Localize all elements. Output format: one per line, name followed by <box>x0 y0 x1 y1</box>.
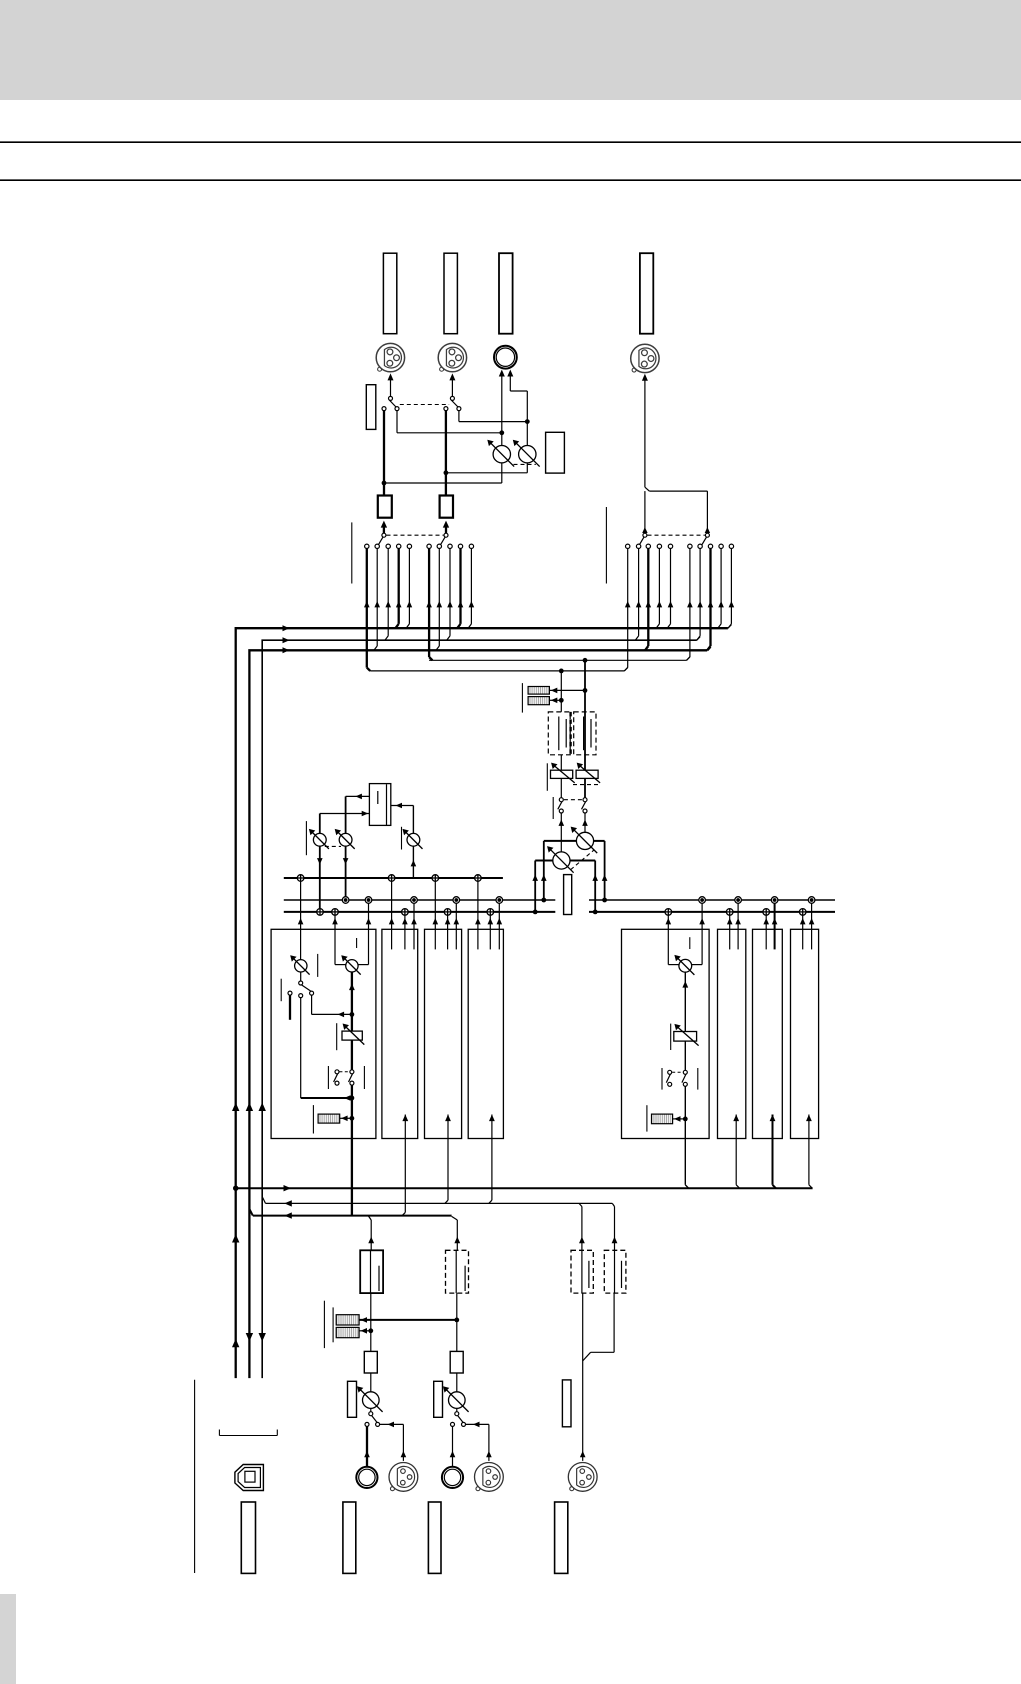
bottom-left gray strip <box>0 1594 16 1684</box>
switch S2 pole left pin <box>444 407 448 411</box>
wire branch down to SEL-D <box>706 491 708 533</box>
wire pan bracket ch5 <box>668 964 679 966</box>
line4 junction to monitor meters <box>583 658 588 663</box>
label monitor meters tick <box>521 683 523 713</box>
label USB bracket <box>219 1435 277 1437</box>
wire XLR4 feed with arrow <box>644 380 646 488</box>
wire monitor B left terminal <box>544 840 577 842</box>
sum node pan R ch5 <box>699 897 706 904</box>
switch SEL-A lever <box>378 537 383 545</box>
wire pot R down to tap <box>526 463 528 473</box>
row CUE send bus (thick) <box>284 877 503 879</box>
row master R bus <box>284 899 556 901</box>
connector XLR1 stereo out L <box>376 343 404 371</box>
sum node pan L ch2 <box>402 909 409 916</box>
label pan tick ch1 <box>356 938 358 948</box>
effect inner line 1 <box>377 791 379 804</box>
header rule upper <box>0 141 1021 143</box>
wire ch6 drop to trunk out <box>735 1139 737 1185</box>
wire monitor B fader to switch <box>584 778 586 797</box>
switch S2 top pin <box>450 396 454 400</box>
wire S2 pole to line amp A2 (thick) <box>445 411 447 496</box>
converter C inner line 1 <box>581 1250 583 1293</box>
fader channel 5 <box>674 1032 697 1042</box>
converter B inner line 2 <box>464 1266 466 1291</box>
wire XLR1 feed with arrow <box>390 380 392 397</box>
wire cue send riser ch1 <box>300 881 302 959</box>
wire ch4 drop to trunk A <box>491 1139 493 1201</box>
line5 right end bend <box>624 667 627 671</box>
pot phones level L <box>493 446 510 463</box>
gang dash mute ch1 <box>339 1071 349 1073</box>
spine AUX arrows <box>259 1103 266 1112</box>
gang dash monitor mutes <box>564 799 583 801</box>
sum node cue ch4 <box>475 875 482 882</box>
sum node cue ch2 <box>388 875 395 882</box>
wire ADC B riser with arrow <box>614 1207 616 1251</box>
switch SEL-B pole pin <box>444 533 448 537</box>
effect inner line 2 <box>386 784 388 825</box>
wire pan L riser ch1 <box>334 915 336 965</box>
switch mute ch1 left top pin <box>335 1070 339 1074</box>
sum node pan L ch3 <box>444 909 451 916</box>
label MONITOR (rotated label box) <box>564 875 572 915</box>
converter block D (dashed box) <box>604 1250 626 1293</box>
arrow bus AUX <box>283 637 290 643</box>
trim block input 1 <box>364 1351 377 1373</box>
pot pan ch5 <box>679 959 692 972</box>
label STEREO OUT L (rotated label box) <box>383 253 396 334</box>
switch input 2 mic pin <box>462 1422 466 1426</box>
wire meter feed ch5 <box>673 1118 686 1120</box>
wire monitor A left terminal <box>535 860 553 862</box>
wire mic 2 feed <box>466 1423 489 1425</box>
channel 7 strip box with risers <box>753 929 783 1138</box>
wire channel main upper ch5 <box>684 972 686 1032</box>
label input meters tick 1 <box>323 1301 325 1348</box>
pot effect return R <box>339 833 352 846</box>
converter D inner line 2 <box>621 1261 623 1288</box>
node meter tap ch1 <box>350 1116 355 1121</box>
bus CUE (thick) horizontal and spine <box>249 650 707 1378</box>
node pre tap on main ch1 <box>350 1012 355 1017</box>
wire DAC A riser with arrow <box>370 1220 372 1250</box>
wire right selector contact 9 stem <box>720 549 722 624</box>
wire monitor A drop from line5 <box>560 671 562 712</box>
switch mute ch1 right bottom pin <box>350 1081 354 1085</box>
wire XLR4 branch horizontal <box>649 490 707 492</box>
switch mute ch5 left top pin <box>668 1070 672 1074</box>
trunk return B ramp to spine <box>249 1209 252 1216</box>
label pan tick ch5 <box>689 937 691 949</box>
insert block monitor B (dashed box) <box>574 712 596 755</box>
label input meters tick 2 <box>332 1307 334 1342</box>
converter block B (dashed box) <box>446 1250 469 1293</box>
arrow bus CUE <box>283 647 290 653</box>
connector XLR input 3 <box>568 1463 597 1492</box>
trunk return B (thick) <box>253 1215 452 1217</box>
connector phone jack input 2 <box>442 1467 463 1488</box>
sum node pan L ch1 <box>332 909 339 916</box>
switch monitor B mute lever <box>582 802 586 810</box>
label cue pot tick ch1 <box>317 954 319 977</box>
gang dash phones pots <box>514 463 536 465</box>
node junction on amp A1 line <box>382 481 387 486</box>
wire meter L feed <box>359 1330 371 1332</box>
gang dash SEL-A/SEL-B <box>387 534 444 536</box>
amplifier A2 (balanced driver) <box>440 496 453 518</box>
sum node pan R ch6 <box>735 897 742 904</box>
pot monitor level A <box>553 852 570 869</box>
wire ADC D drop <box>613 1293 615 1352</box>
trim block input 2 <box>450 1351 463 1373</box>
switch S1 top pin <box>389 396 393 400</box>
label mute tick left ch5 <box>661 1068 663 1090</box>
insert A bold dashed edge <box>569 712 571 755</box>
switch SEL-C pole pin <box>643 533 647 537</box>
wire pot 1 to switch <box>370 1408 372 1411</box>
fader channel 1 <box>342 1031 362 1040</box>
label bottom input 3 (rotated label box) <box>555 1502 568 1573</box>
wire cue post tap ch1 <box>300 998 302 1098</box>
wire monitor B pot riser with arrow <box>584 813 586 832</box>
sum node pan R ch2 <box>411 897 418 904</box>
insert block monitor A (dashed box) <box>548 712 570 755</box>
wire channel main upper ch1 (thick) <box>351 972 353 1031</box>
wire XLR4 branch kink <box>645 487 649 491</box>
switch input 2 common pin <box>455 1412 459 1416</box>
label PHONES block (label box) <box>546 432 565 473</box>
label PHONES (rotated label box) <box>499 253 513 334</box>
label mute tick right ch5 <box>697 1068 699 1090</box>
wire left selector contact 9 stem <box>459 549 461 624</box>
label effect send tick <box>401 827 403 850</box>
switch SEL-D lever <box>702 537 707 545</box>
wire monitor B right riser <box>604 841 606 900</box>
switch SEL-B lever <box>440 537 445 545</box>
bus STEREO right end bend <box>728 625 732 629</box>
wire left selector contact 7 stem <box>438 549 440 646</box>
wire pan bracket ch1 <box>335 964 346 966</box>
wire left selector contact 1 stem <box>366 549 368 668</box>
channel 5 strip box <box>622 929 710 1138</box>
label bottom input 1 (rotated label box) <box>343 1502 356 1573</box>
meter monitor R <box>528 697 549 705</box>
sum node cue ch1 <box>297 875 304 882</box>
selector left contact pins row <box>365 544 474 548</box>
switch SEL-A pole pin <box>382 533 386 537</box>
label effect return tick <box>305 821 307 855</box>
node monitor B meter tap <box>583 688 588 693</box>
wire left selector contact 8 stem <box>449 549 451 636</box>
switch input 1 mic pin <box>376 1422 380 1426</box>
arrow bus STEREO <box>283 625 290 631</box>
wire ch1 main to trunk B (thick) <box>351 1139 353 1216</box>
wire to phones R node <box>459 421 527 423</box>
wire monitor A pot riser with arrow <box>560 813 562 852</box>
spine CUE arrows <box>246 1103 253 1112</box>
wire monitor A right terminal <box>570 860 595 862</box>
sum node efx return L <box>317 909 324 916</box>
label input pot 2 (rotated label box) <box>434 1381 443 1417</box>
node phones R junction <box>525 419 530 424</box>
label SEL-A tick <box>351 522 353 583</box>
switch cue mode lever ch1 <box>302 985 311 991</box>
label fader tick ch1 <box>336 1023 338 1050</box>
header rule lower <box>0 179 1021 181</box>
gang dash mute ch5 <box>672 1071 683 1073</box>
node monitor B left on master R <box>541 898 546 903</box>
wire monitor B left riser <box>543 841 545 900</box>
wire to phones L node <box>397 432 502 434</box>
switch cue mode common pin ch1 <box>299 981 303 985</box>
trunk return A <box>266 1202 613 1204</box>
trunk return A ramp to spine <box>262 1197 265 1204</box>
switch mute ch5 right lever <box>682 1074 686 1082</box>
node phones L junction <box>499 430 504 435</box>
switch S1 pole right pin <box>395 407 399 411</box>
meter input L <box>336 1315 359 1325</box>
wire left selector contact 3 stem <box>387 549 389 636</box>
meter channel 5 <box>652 1114 673 1124</box>
channel 2 strip box with risers <box>382 929 418 1138</box>
wire monitor B through insert <box>584 712 586 770</box>
switch input 1 lever <box>372 1416 377 1423</box>
insert A inner pin line 1 <box>558 717 560 751</box>
wire jack 1 feed (thick) <box>366 1426 368 1466</box>
wire right selector contact 7 stem <box>699 549 701 636</box>
wire amp A2 input with arrow (thick) <box>445 525 447 533</box>
wire monitor B right terminal <box>594 840 605 842</box>
wire effect send riser <box>412 806 414 879</box>
wire monitor A left riser <box>534 861 536 912</box>
wire channel main mid ch5 <box>684 1041 686 1070</box>
wire pan R riser ch1 <box>368 903 370 965</box>
amplifier A1 (balanced driver) <box>378 496 392 518</box>
wire right selector contact 8 stem <box>709 549 711 646</box>
pot monitor level B <box>576 832 593 849</box>
connector USB port <box>235 1465 264 1491</box>
label cue switch tick ch1 <box>280 979 282 1002</box>
fader monitor B <box>576 770 598 778</box>
wire left selector contact 10 stem <box>470 549 472 624</box>
switch mute ch5 right bottom pin <box>683 1082 687 1086</box>
label mute tick left ch1 <box>327 1066 329 1089</box>
switch monitor A mute bottom pin <box>559 809 563 813</box>
wire trim 1 to pot <box>370 1373 372 1392</box>
wire S1 pole to line amp A1 (thick) <box>383 411 385 496</box>
pot phones level R <box>519 446 536 463</box>
wire right selector contact 1 stem <box>627 549 629 668</box>
wire DAC B riser with arrow <box>456 1220 458 1250</box>
insert B inner pin line 2 <box>590 719 592 748</box>
label bottom USB (rotated label box) <box>241 1502 255 1573</box>
pot effect return L <box>313 833 326 846</box>
switch S1 lever <box>389 400 396 407</box>
row master L bus (thick) <box>284 911 556 913</box>
switch mute ch5 left lever <box>666 1074 670 1082</box>
bus line5 monitor A <box>370 670 624 672</box>
wire channel main mid ch1 (thick) <box>351 1040 353 1070</box>
wire meter R feed (thick) <box>359 1319 457 1321</box>
sum node efx return R <box>342 897 349 904</box>
label line3 (rotated label box) <box>562 1380 571 1427</box>
pot cue send ch1 <box>295 960 307 972</box>
wire mic 1 feed <box>380 1423 404 1425</box>
converter D inner line 1 <box>614 1250 616 1293</box>
wire cue off stub ch1 (thick) <box>289 995 291 1020</box>
selector right contact pins row <box>626 544 734 548</box>
node input meter tap L <box>368 1328 373 1333</box>
connector phones jack <box>494 346 517 369</box>
fader monitor A <box>551 770 573 778</box>
node monitor B right on master R <box>602 898 607 903</box>
wire S1 right pin drop <box>396 411 398 433</box>
wire to monitor meter 2 <box>549 699 561 701</box>
wire right selector contact 4 stem <box>658 549 660 624</box>
switch monitor B mute top pin <box>583 798 587 802</box>
switch mute ch5 left bottom pin <box>668 1082 672 1086</box>
insert A inner pin line 2 <box>565 719 567 748</box>
node meter tap ch5 <box>683 1117 688 1122</box>
channel 4 strip box with risers <box>468 929 503 1138</box>
wire input 2 vertical <box>456 1293 458 1351</box>
switch input 1 jack pin <box>365 1422 369 1426</box>
converter A inner line 2 <box>378 1266 380 1291</box>
connector XLR2 stereo out R <box>438 343 466 371</box>
label SEL-C tick <box>605 507 607 584</box>
wire phones R riser with arrow <box>509 376 511 392</box>
wire effect in left <box>320 813 370 815</box>
switch cue mode left pin ch1 <box>288 991 292 995</box>
meter input R <box>336 1327 359 1337</box>
spine STEREO arrows <box>232 1103 239 1112</box>
switch mute ch1 right lever <box>349 1074 353 1082</box>
wire monitor A right riser <box>594 861 596 912</box>
bus AUX right end bend <box>697 637 700 641</box>
wire left selector contact 6 stem <box>428 549 430 657</box>
wire ch2 drop to trunk B <box>404 1139 406 1213</box>
switch mute ch1 right top pin <box>350 1070 354 1074</box>
switch mute ch5 right top pin <box>683 1070 687 1074</box>
wire left selector contact 5 stem <box>408 549 410 624</box>
wire to monitor meter 1 <box>549 689 585 691</box>
label bottom input 2 (rotated label box) <box>428 1502 441 1573</box>
sum node pan R ch3 <box>453 897 460 904</box>
sum node pan L ch6 <box>726 909 733 916</box>
label MONO OUT (rotated label box) <box>640 253 653 334</box>
switch monitor A mute top pin <box>559 798 563 802</box>
wire ch5 drop to trunk out <box>684 1139 686 1185</box>
wire pot 2 to switch <box>456 1408 458 1411</box>
sum node pan L ch5 <box>665 909 672 916</box>
label OUTPUT switch (rotated label box) <box>366 385 376 430</box>
node post tap ch1 <box>350 1096 355 1101</box>
node monitor A meter tap <box>559 698 564 703</box>
node monitor A left on master L <box>533 910 538 915</box>
wire ch7 drop to trunk out (thick) <box>772 1139 774 1185</box>
switch SEL-D pole pin <box>705 533 709 537</box>
label meter tick ch5 <box>646 1105 648 1131</box>
label mute tick right ch1 <box>363 1066 365 1089</box>
wire input 1 vertical <box>370 1293 372 1351</box>
label input pot 1 (rotated label box) <box>348 1381 357 1417</box>
label fader tick ch5 <box>670 1024 672 1050</box>
switch SEL-C lever <box>639 537 644 545</box>
switch mute ch1 left bottom pin <box>335 1081 339 1085</box>
wire pan L riser ch5 <box>667 915 669 965</box>
wire monitor A fader to switch <box>560 778 562 797</box>
wire cue pot to switch ch1 <box>300 972 302 981</box>
gang dash monitor faders <box>573 784 598 786</box>
switch monitor B mute bottom pin <box>583 809 587 813</box>
sum node pan R ch7 <box>771 897 778 904</box>
connector XLR input 2 <box>475 1463 504 1492</box>
node trunk line-out at spine <box>233 1186 238 1191</box>
switch S1 pole left pin <box>382 407 386 411</box>
bus AUX horizontal and spine <box>262 640 697 1378</box>
channel 8 strip box with risers <box>791 929 819 1138</box>
node input meter tap R <box>454 1318 459 1323</box>
gang dash SEL-C/SEL-D <box>648 534 705 536</box>
wire pan R riser ch5 <box>701 903 703 965</box>
wire left selector contact 2 stem <box>376 549 378 646</box>
label monitor mute tick <box>552 797 554 819</box>
bus line4 monitor B <box>429 659 686 661</box>
channel 3 strip box with risers <box>425 929 462 1138</box>
pot effect send master <box>407 833 420 846</box>
channel 6 strip box with risers <box>718 929 746 1138</box>
wire monitor A insert out <box>560 755 562 770</box>
switch cue mode mid pin ch1 <box>299 994 303 998</box>
connector XLR input 1 <box>389 1463 418 1492</box>
label STEREO OUT R (rotated label box) <box>444 253 457 334</box>
switch mute ch1 left lever <box>334 1074 338 1082</box>
wire SEL-C pole riser with arrow <box>644 491 646 533</box>
switch gang dash S1-S2 <box>400 404 449 406</box>
sum node pan R ch4 <box>496 897 503 904</box>
wire effect in right <box>391 805 414 807</box>
switch input 1 common pin <box>369 1412 373 1416</box>
label meter tick ch1 <box>312 1105 314 1133</box>
pot pan ch1 <box>346 960 358 972</box>
wire ch8 drop to trunk out <box>808 1139 810 1185</box>
trunk line-out (thick) <box>236 1187 813 1189</box>
wire channel main lower ch1 (thick) <box>351 1085 353 1138</box>
wire XLR2 feed with arrow <box>451 380 453 397</box>
sum node pan L ch7 <box>763 909 770 916</box>
bus CUE right end bend <box>707 647 710 651</box>
wire pot R upper link <box>526 422 528 446</box>
line5 junction to monitor meters <box>559 669 564 674</box>
wire effect return R drop <box>345 796 347 900</box>
wire pot L down to tap <box>501 463 503 483</box>
converter block C (dashed box) <box>571 1250 593 1293</box>
sum node pan L ch4 <box>487 909 494 916</box>
insert B inner pin line 1 <box>583 717 585 751</box>
sum node cue ch3 <box>432 875 439 882</box>
wire mic 3 feed <box>582 1293 584 1461</box>
converter block A (solid box) <box>360 1250 383 1293</box>
connector phone jack input 1 <box>356 1467 377 1488</box>
node junction on amp A2 line <box>444 470 449 475</box>
wire effect out left <box>346 795 370 797</box>
sum node pan R ch1 <box>365 897 372 904</box>
wire S2 right pin drop <box>458 411 460 422</box>
sum node pan R ch8 <box>808 897 815 904</box>
wire phones L riser with arrow <box>501 376 503 446</box>
wire cue pre tap ch1 <box>311 995 313 1014</box>
